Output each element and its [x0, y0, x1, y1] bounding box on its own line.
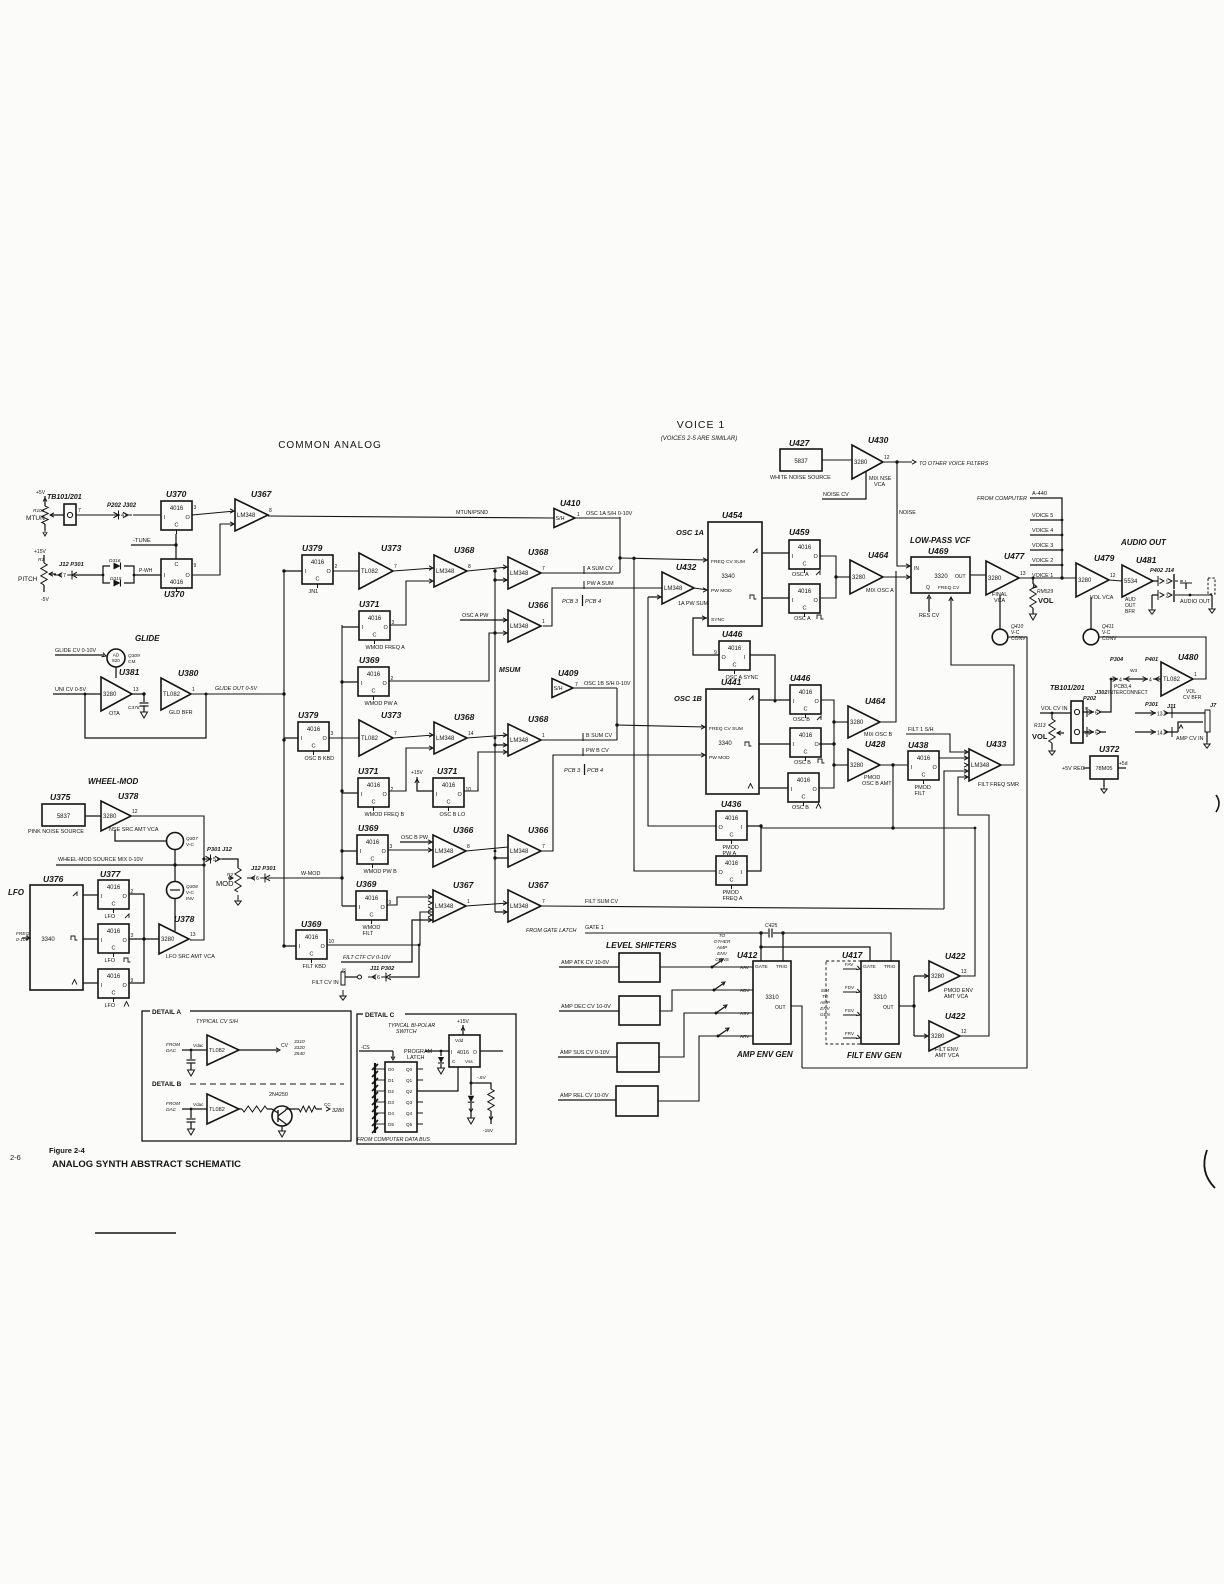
diode clamp detail C	[425, 1050, 449, 1074]
svg-text:VOL CV IN: VOL CV IN	[1041, 706, 1068, 712]
op-amp U381 (3280) glide OTA	[101, 667, 140, 717]
svg-text:U381: U381	[119, 667, 140, 677]
svg-text:Q307: Q307	[186, 836, 198, 842]
svg-text:12: 12	[884, 455, 890, 461]
svg-text:ARV: ARV	[740, 1034, 750, 1039]
svg-text:U371: U371	[358, 766, 379, 776]
svg-text:I: I	[792, 554, 794, 560]
svg-text:OSC B KBD: OSC B KBD	[305, 756, 335, 762]
net UNI CV 0-5V	[53, 687, 101, 694]
svg-text:+5V: +5V	[36, 490, 46, 496]
svg-text:LM348: LM348	[510, 849, 529, 855]
svg-text:1: 1	[467, 899, 470, 905]
net VOL CV IN	[1040, 706, 1071, 713]
net VOICE 4	[1030, 528, 1063, 536]
svg-text:4016: 4016	[368, 616, 382, 622]
svg-text:U366: U366	[453, 825, 474, 835]
terminal block TB101/201 vol	[1050, 685, 1108, 743]
svg-text:3340: 3340	[721, 574, 735, 580]
svg-text:OUT: OUT	[883, 1005, 894, 1011]
svg-text:O: O	[321, 944, 326, 950]
op-amp U422 (3280) filt env amt	[929, 1011, 967, 1051]
svg-text:OUT: OUT	[955, 574, 966, 580]
svg-text:5: 5	[213, 857, 216, 863]
net to other voice filters	[883, 460, 989, 467]
potentiometer R113 VOL	[1032, 712, 1064, 756]
svg-text:U417: U417	[842, 950, 864, 960]
svg-text:C: C	[447, 800, 451, 806]
svg-text:VOICE 2: VOICE 2	[1032, 558, 1053, 564]
svg-text:U379: U379	[302, 543, 323, 553]
svg-text:12: 12	[1110, 573, 1116, 579]
svg-text:S/H: S/H	[554, 686, 563, 692]
svg-text:O: O	[815, 699, 820, 705]
switch U371 OSC B LO (4016)	[437, 766, 458, 776]
svg-text:GATE: GATE	[863, 964, 876, 970]
svg-text:AUDIO OUT: AUDIO OUT	[1180, 599, 1211, 605]
label DETAIL B	[150, 1078, 344, 1088]
svg-text:O: O	[473, 1050, 477, 1056]
svg-text:OSC A: OSC A	[794, 616, 811, 622]
connector J12 P301 w-mod	[247, 866, 276, 883]
wire U370 pin3 to op-amp U367	[192, 509, 235, 515]
svg-text:AMT VCA: AMT VCA	[935, 1053, 959, 1059]
svg-text:3280: 3280	[931, 974, 945, 980]
net GLIDE CV 0-10V	[55, 648, 107, 658]
svg-text:C: C	[730, 878, 734, 884]
svg-text:LFO: LFO	[105, 1003, 116, 1009]
net PW A SUM	[543, 581, 662, 626]
svg-text:3340: 3340	[718, 741, 732, 747]
svg-text:ANALOG SYNTH ABSTRACT SCHEMATI: ANALOG SYNTH ABSTRACT SCHEMATIC	[52, 1159, 241, 1170]
svg-text:+5V REG: +5V REG	[1062, 766, 1085, 772]
svg-text:13: 13	[961, 969, 967, 975]
svg-text:4016: 4016	[728, 646, 742, 652]
svg-text:S/H: S/H	[556, 516, 565, 522]
svg-text:C: C	[112, 991, 116, 997]
page title COMMON ANALOG	[278, 440, 382, 451]
svg-text:WMOD FREQ A: WMOD FREQ A	[366, 645, 406, 651]
wire U432 lower input from U436	[648, 595, 716, 826]
svg-text:LFO: LFO	[8, 888, 25, 897]
scan artifact right parenthesis lower	[1204, 1150, 1215, 1188]
audio out jack J4	[1175, 578, 1215, 613]
svg-text:U459: U459	[789, 527, 810, 537]
svg-text:VOICE 5: VOICE 5	[1032, 513, 1053, 519]
wire dec to U412	[660, 980, 753, 1011]
svg-text:J12 P301: J12 P301	[59, 562, 84, 568]
svg-text:U454: U454	[722, 510, 743, 520]
svg-text:C: C	[312, 744, 316, 750]
svg-text:I: I	[305, 569, 307, 575]
svg-text:2: 2	[1166, 594, 1169, 600]
svg-text:U377: U377	[100, 869, 122, 879]
svg-text:FRV: FRV	[845, 1031, 855, 1036]
svg-text:I: I	[792, 598, 794, 604]
svg-text:7: 7	[542, 899, 545, 905]
svg-text:W3: W3	[1130, 668, 1138, 674]
svg-text:U464: U464	[865, 696, 886, 706]
svg-text:I: I	[451, 1050, 452, 1056]
svg-text:P301: P301	[1145, 702, 1158, 708]
connector P402 J14	[1150, 568, 1175, 589]
oscillator U376 (3340) LFO	[16, 874, 83, 990]
wire S/H and A SUM to FREQ CV SUM	[618, 517, 708, 573]
svg-text:3280: 3280	[850, 720, 864, 726]
svg-text:5534: 5534	[1124, 579, 1138, 585]
svg-text:MIX OSC B: MIX OSC B	[864, 732, 892, 738]
svg-text:U368: U368	[454, 545, 475, 555]
net GLIDE OUT 0-5V	[191, 686, 286, 696]
svg-text:J7: J7	[1210, 703, 1217, 709]
svg-text:WHEEL-MOD SOURCE MIX 0-10V: WHEEL-MOD SOURCE MIX 0-10V	[58, 857, 143, 863]
svg-text:TL082: TL082	[209, 1107, 225, 1113]
svg-text:4016: 4016	[107, 929, 121, 935]
svg-text:C: C	[112, 902, 116, 908]
svg-text:FSV: FSV	[845, 1008, 855, 1013]
s/h buffer U410	[554, 498, 581, 528]
svg-text:I: I	[164, 573, 166, 579]
svg-text:8: 8	[468, 564, 471, 570]
level shifter box amp atk	[559, 953, 660, 982]
svg-text:GLD BFR: GLD BFR	[169, 710, 193, 716]
svg-text:TL082: TL082	[1163, 677, 1181, 683]
label FROM COMPUTER DATA BUS	[357, 1137, 430, 1143]
switch U459b OSC A pulse (4016)	[789, 584, 820, 617]
svg-text:U367: U367	[453, 880, 475, 890]
svg-text:FILT SUM CV: FILT SUM CV	[585, 899, 618, 905]
net FILT CTF CV 0-10V	[341, 918, 433, 962]
svg-text:O: O	[382, 849, 387, 855]
caption ANALOG SYNTH ABSTRACT SCHEMATIC	[52, 1159, 241, 1170]
svg-text:U410: U410	[560, 498, 581, 508]
svg-text:C: C	[803, 606, 807, 612]
net -6V	[470, 1067, 487, 1085]
wire FREQ CV from U433	[949, 597, 1014, 765]
resistor R1 PITCH pot	[18, 555, 56, 603]
svg-text:R1: R1	[38, 557, 44, 563]
wire net MTUN/PSND	[268, 510, 620, 518]
svg-text:-.6V: -.6V	[477, 1075, 487, 1081]
svg-text:O: O	[123, 938, 128, 944]
net B SUM CV	[542, 733, 617, 741]
switch U436 PMOD FREQ A (4016)	[716, 856, 747, 902]
svg-text:LM348: LM348	[510, 738, 529, 744]
svg-text:J11: J11	[1167, 704, 1176, 710]
svg-text:U367: U367	[528, 880, 550, 890]
svg-text:C: C	[175, 523, 179, 529]
net FRV	[843, 1031, 861, 1040]
svg-text:4: 4	[121, 513, 124, 519]
svg-text:TB101/201: TB101/201	[1050, 685, 1085, 692]
net CV to 3310/3320/3540	[239, 1039, 305, 1057]
svg-text:4: 4	[1119, 678, 1122, 684]
power +5V label	[36, 490, 46, 496]
svg-text:3280: 3280	[931, 1034, 945, 1040]
connector P202 pin6 vol	[1083, 678, 1112, 717]
svg-text:3: 3	[194, 505, 197, 511]
svg-text:I: I	[361, 681, 363, 687]
svg-text:Q4: Q4	[406, 1111, 413, 1116]
svg-text:U438: U438	[908, 740, 929, 750]
connector P301 J12 mod out	[206, 847, 239, 868]
transistor 2N4250	[269, 1092, 292, 1137]
svg-text:1: 1	[192, 687, 195, 693]
svg-text:R2: R2	[227, 872, 233, 878]
resistor detail B output	[286, 1102, 344, 1114]
svg-text:LM348: LM348	[510, 624, 529, 630]
svg-text:I: I	[791, 787, 793, 793]
svg-text:3310: 3310	[294, 1039, 305, 1045]
svg-text:I: I	[101, 983, 103, 989]
svg-text:3310: 3310	[765, 995, 779, 1001]
svg-text:PCB 3: PCB 3	[562, 599, 579, 605]
switch U377 LFO saw (4016)	[100, 869, 122, 879]
op-amp U433 (LM348) filt freq smr	[969, 739, 1007, 781]
svg-text:PW B CV: PW B CV	[586, 748, 609, 754]
net PCB3 PCB4 boundary B	[564, 764, 603, 775]
svg-text:PW A SUM: PW A SUM	[587, 581, 614, 587]
transistor Q307 V-C converter	[115, 830, 198, 850]
svg-text:9: 9	[194, 563, 197, 569]
svg-text:AAV: AAV	[740, 965, 750, 970]
svg-text:U430: U430	[868, 435, 889, 445]
op-amp U366 (LM348) A PW mixer	[508, 600, 549, 642]
op-amp U380 (TL082) glide buffer	[161, 668, 199, 716]
wire Q410 to amp env	[802, 637, 1027, 1068]
svg-text:I: I	[101, 938, 103, 944]
label AMP ENV GEN	[736, 1050, 793, 1059]
svg-text:C: C	[372, 689, 376, 695]
svg-text:O: O	[814, 598, 819, 604]
op-amp U422 (3280) pmod env amt	[929, 951, 967, 991]
svg-text:Q0: Q0	[406, 1067, 413, 1072]
capacitor C376	[128, 692, 149, 718]
wire U369 WMOD FILT to U367	[387, 895, 433, 905]
svg-text:TO: TO	[822, 994, 829, 999]
svg-text:O: O	[383, 792, 388, 798]
wire sus to U412	[659, 1003, 753, 1057]
svg-text:4: 4	[1149, 678, 1152, 684]
resistor R104 MTUN pot	[26, 496, 64, 536]
svg-text:4016: 4016	[799, 690, 813, 696]
svg-text:COMMON ANALOG: COMMON ANALOG	[278, 440, 382, 451]
svg-text:3280: 3280	[850, 763, 864, 769]
svg-text:LM348: LM348	[510, 571, 529, 577]
wire U427 to U430	[822, 459, 852, 461]
svg-text:4016: 4016	[442, 783, 456, 789]
wire filt env to U433	[958, 777, 989, 1036]
svg-text:U378: U378	[174, 914, 195, 924]
svg-text:GLIDE: GLIDE	[135, 634, 160, 643]
net -TUNE	[131, 534, 178, 559]
wire pmod bus	[747, 824, 976, 871]
svg-text:VCA: VCA	[874, 482, 886, 488]
label DETAIL A	[150, 1006, 190, 1016]
svg-text:O: O	[813, 787, 818, 793]
svg-text:I: I	[359, 905, 361, 911]
svg-text:FAV: FAV	[845, 962, 854, 967]
svg-text:C: C	[316, 577, 320, 583]
wire U438 to U433	[939, 756, 969, 760]
svg-text:7: 7	[63, 573, 66, 579]
label DETAIL C	[363, 1009, 405, 1019]
wire U412 OUT	[791, 1006, 802, 1068]
svg-text:AMP ENV GEN: AMP ENV GEN	[736, 1050, 793, 1059]
svg-text:4016: 4016	[367, 672, 381, 678]
wire U481 spare input ground	[1149, 595, 1155, 614]
svg-text:I: I	[164, 515, 166, 521]
switch U369 WMOD PW B (4016)	[358, 823, 379, 833]
svg-text:D316: D316	[109, 558, 121, 564]
regulator U372 (78M05)	[1062, 744, 1128, 793]
svg-text:D1: D1	[388, 1078, 394, 1083]
svg-text:J12 P301: J12 P301	[251, 866, 276, 872]
svg-text:Figure 2-4: Figure 2-4	[49, 1146, 86, 1155]
svg-text:TRIG: TRIG	[776, 964, 788, 970]
svg-text:O: O	[719, 870, 724, 876]
connector P402 J14 pin2	[1152, 590, 1174, 602]
svg-text:C: C	[802, 795, 806, 801]
noise source U427 (5837)	[770, 438, 831, 481]
svg-text:(VOICES 2-5 ARE SIMILAR): (VOICES 2-5 ARE SIMILAR)	[661, 436, 737, 442]
svg-text:ENV: ENV	[820, 1006, 830, 1011]
svg-text:3: 3	[390, 844, 393, 850]
svg-text:C: C	[371, 857, 375, 863]
svg-text:P401: P401	[1145, 657, 1158, 663]
wire U432 output to PW MOD	[694, 588, 708, 592]
svg-text:Q1: Q1	[406, 1078, 413, 1083]
op-amp U378 (3280) noise VCA	[101, 791, 139, 831]
op-amp U368 (LM348) A sum mixer	[508, 547, 549, 589]
svg-text:4016: 4016	[170, 506, 184, 512]
net OSC A PW	[460, 613, 508, 622]
svg-text:3280: 3280	[852, 575, 866, 581]
op-amp U477 (3280) final VCA	[986, 551, 1026, 595]
svg-text:P202 J302: P202 J302	[107, 503, 137, 509]
op-amp U479 (3280) vol VCA	[1076, 553, 1116, 597]
svg-text:4016: 4016	[170, 580, 184, 586]
level shifter box amp sus	[558, 1043, 659, 1072]
connector pin14 amp cv in	[1135, 722, 1204, 742]
svg-text:LFO: LFO	[105, 958, 116, 964]
svg-text:I: I	[911, 765, 913, 771]
section title LEVEL SHIFTERS	[606, 940, 677, 950]
net FILT 1 S/H	[906, 727, 969, 754]
wire gate/trig distribution	[759, 933, 891, 961]
switch U459 OSC A saw (4016)	[789, 527, 810, 537]
wire atk to U412	[660, 957, 753, 968]
svg-text:AMP ATK CV 10-0V: AMP ATK CV 10-0V	[561, 960, 610, 966]
svg-text:U373: U373	[381, 543, 402, 553]
svg-text:Vdac: Vdac	[193, 1102, 204, 1107]
net VOICE 1	[1032, 573, 1053, 579]
op-amp U481 (5534) audio out buffer	[1122, 555, 1157, 597]
svg-text:1: 1	[1194, 672, 1197, 678]
connector J6 FILT CV IN	[312, 968, 362, 1001]
svg-text:U380: U380	[178, 668, 199, 678]
svg-text:U412: U412	[737, 950, 758, 960]
svg-text:D5: D5	[388, 1122, 394, 1127]
transistor Q411 V-C converter	[1083, 597, 1117, 645]
svg-text:VOL: VOL	[1032, 732, 1048, 741]
power +15V label pitch	[34, 549, 46, 555]
svg-text:1: 1	[577, 512, 580, 518]
capacitor C425	[759, 923, 784, 938]
svg-text:13: 13	[133, 687, 139, 693]
svg-text:TL082: TL082	[361, 569, 379, 575]
svg-text:C425: C425	[765, 923, 778, 929]
svg-text:LOW-PASS VCF: LOW-PASS VCF	[910, 536, 972, 545]
svg-text:D4: D4	[388, 1111, 394, 1116]
net OSC B PW	[400, 835, 433, 844]
transistor Q410 V-C converter	[992, 595, 1026, 645]
svg-text:C: C	[803, 562, 807, 568]
svg-text:O: O	[722, 655, 727, 661]
svg-text:INV: INV	[186, 896, 195, 902]
svg-text:I: I	[436, 792, 438, 798]
svg-text:U432: U432	[676, 562, 697, 572]
diode D315	[103, 575, 134, 587]
svg-text:C: C	[370, 913, 374, 919]
svg-text:O: O	[815, 742, 820, 748]
svg-text:Q3: Q3	[406, 1100, 413, 1105]
svg-text:3280: 3280	[332, 1108, 344, 1114]
svg-text:OSC B AMT: OSC B AMT	[862, 781, 892, 787]
wire U379 to U373	[333, 570, 359, 572]
resistor detail B input	[239, 1106, 272, 1112]
svg-text:OSC B LO: OSC B LO	[440, 812, 466, 818]
svg-text:4016: 4016	[366, 840, 380, 846]
envelope generator U412 (3310) amp	[737, 950, 791, 1044]
svg-text:GLIDE OUT 0-5V: GLIDE OUT 0-5V	[215, 686, 258, 692]
label FILT ENV GEN	[847, 1051, 902, 1060]
svg-text:Vss: Vss	[465, 1059, 473, 1064]
svg-text:PINK NOISE SOURCE: PINK NOISE SOURCE	[28, 829, 84, 835]
svg-text:C: C	[804, 750, 808, 756]
svg-text:TYPICAL CV S/H: TYPICAL CV S/H	[196, 1019, 238, 1025]
svg-text:A-440: A-440	[1032, 491, 1047, 497]
svg-text:I: I	[360, 849, 362, 855]
svg-text:13: 13	[1020, 571, 1026, 577]
svg-text:U422: U422	[945, 951, 966, 961]
transistor Q308 V-C inverter	[167, 882, 199, 932]
svg-text:MOD: MOD	[216, 879, 234, 888]
svg-text:TL082: TL082	[361, 736, 379, 742]
svg-text:Vdac: Vdac	[193, 1043, 204, 1048]
caption page number 2-6	[10, 1153, 21, 1162]
svg-text:7: 7	[78, 508, 81, 514]
svg-text:U370: U370	[164, 589, 185, 599]
svg-text:-15V: -15V	[483, 1128, 494, 1134]
wire U368 to mixer	[467, 565, 508, 573]
svg-text:U464: U464	[868, 550, 889, 560]
svg-text:OSC 1B S/H 0-10V: OSC 1B S/H 0-10V	[584, 681, 631, 687]
wire wmod bus to U371	[342, 626, 359, 628]
svg-text:4016: 4016	[367, 783, 381, 789]
connector J11 P302	[368, 944, 420, 982]
switch U379 OSC B KBD (4016)	[298, 710, 319, 720]
level shifter box amp dec	[559, 996, 660, 1025]
svg-text:VOL VCA: VOL VCA	[1090, 595, 1114, 601]
transistor Q309 AD820 glide current source	[107, 649, 140, 678]
svg-text:INTERCONNECT: INTERCONNECT	[1108, 690, 1148, 696]
switch U370 (4016) upper	[166, 489, 187, 499]
wire U377 outputs join	[129, 894, 159, 983]
svg-text:U446: U446	[722, 629, 743, 639]
svg-text:OUT: OUT	[775, 1005, 786, 1011]
svg-text:A SUM CV: A SUM CV	[587, 566, 613, 572]
